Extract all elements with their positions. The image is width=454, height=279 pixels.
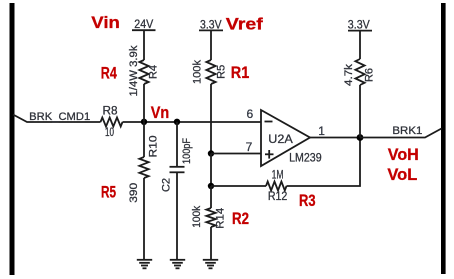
wire R14 to ground	[210, 227, 212, 260]
svg-text:4.7k: 4.7k	[343, 63, 355, 86]
svg-text:7: 7	[246, 140, 253, 154]
svg-text:R8: R8	[103, 105, 118, 117]
junction output node	[357, 134, 364, 141]
resistor R4	[128, 45, 160, 97]
svg-text:R2: R2	[232, 209, 249, 228]
wire C2 to ground	[176, 172, 178, 259]
svg-text:R10: R10	[148, 136, 160, 158]
wire R6 to output node	[359, 85, 361, 138]
ground (C2)	[170, 260, 185, 269]
svg-text:VoL: VoL	[387, 165, 417, 184]
junction feedback	[208, 183, 214, 189]
junction plus input	[208, 150, 214, 156]
ground (R14)	[203, 260, 218, 269]
junction Vn at C2	[174, 119, 180, 125]
svg-text:6: 6	[247, 107, 254, 121]
svg-text:1: 1	[318, 124, 325, 138]
svg-text:R1: R1	[231, 63, 250, 82]
svg-text:R14: R14	[214, 208, 226, 229]
svg-text:R3: R3	[299, 191, 316, 210]
svg-text:R12: R12	[268, 191, 288, 203]
svg-text:BRK1: BRK1	[392, 125, 422, 137]
wire output node to BRK1 exit	[360, 129, 442, 138]
svg-text:VoH: VoH	[388, 145, 419, 164]
capacitor C2	[161, 138, 194, 192]
power symbol 24V	[132, 19, 156, 60]
svg-text:C2: C2	[161, 178, 173, 192]
junction Vn at R4/R10	[141, 119, 147, 125]
wire plus junction down to feedback junction	[210, 154, 212, 187]
wire Vn to C2	[176, 122, 178, 167]
power symbol 3.3V (pull-up)	[348, 19, 372, 59]
svg-text:LM239: LM239	[289, 151, 322, 165]
resistor R6	[343, 59, 376, 86]
resistor R5	[192, 60, 228, 84]
wire op-amp output to node	[310, 137, 360, 139]
op-amp U2A	[261, 110, 322, 166]
svg-text:Vref: Vref	[226, 15, 263, 34]
wire feedback junction to R12	[211, 185, 266, 187]
svg-text:R5: R5	[216, 65, 228, 79]
svg-text:BRK_CMD1: BRK_CMD1	[29, 111, 90, 123]
off-page connector bar right	[441, 3, 446, 274]
svg-text:100pF: 100pF	[181, 138, 193, 164]
svg-text:R5: R5	[101, 182, 116, 201]
svg-text:100k: 100k	[192, 60, 204, 84]
svg-text:Vin: Vin	[91, 13, 120, 32]
svg-text:R4: R4	[148, 65, 160, 79]
wire R5 to plus input junction	[210, 84, 212, 154]
wire BRK_CMD1 entry	[13, 115, 101, 123]
wire R10 to ground	[143, 178, 145, 260]
ground (R10)	[137, 260, 152, 269]
wire R8 to pin 6 (node Vn)	[123, 121, 262, 123]
resistor R10	[128, 136, 160, 203]
wire feedback junction to R14	[210, 186, 212, 208]
svg-text:3.3V: 3.3V	[348, 19, 370, 31]
off-page connector bar left	[10, 3, 15, 275]
svg-text:100k: 100k	[191, 205, 203, 227]
svg-text:U2A: U2A	[268, 132, 293, 146]
svg-text:390: 390	[128, 183, 140, 203]
wire R4 to Vn	[143, 84, 145, 122]
power symbol 3.3V (Vref)	[199, 20, 223, 60]
svg-text:R6: R6	[364, 68, 376, 82]
wire R12 to output node	[287, 138, 361, 187]
resistor R8	[101, 105, 123, 139]
svg-text:24V: 24V	[134, 19, 153, 31]
resistor R14	[191, 205, 226, 228]
svg-text:10: 10	[105, 127, 114, 139]
svg-text:R4: R4	[101, 63, 117, 82]
resistor R12	[266, 170, 287, 204]
wire plus input to op-amp	[211, 153, 262, 155]
wire Vn to R10	[143, 122, 145, 157]
svg-text:1/4W 3.9k: 1/4W 3.9k	[128, 45, 140, 97]
svg-text:1M: 1M	[272, 170, 284, 182]
svg-text:Vn: Vn	[151, 103, 170, 122]
